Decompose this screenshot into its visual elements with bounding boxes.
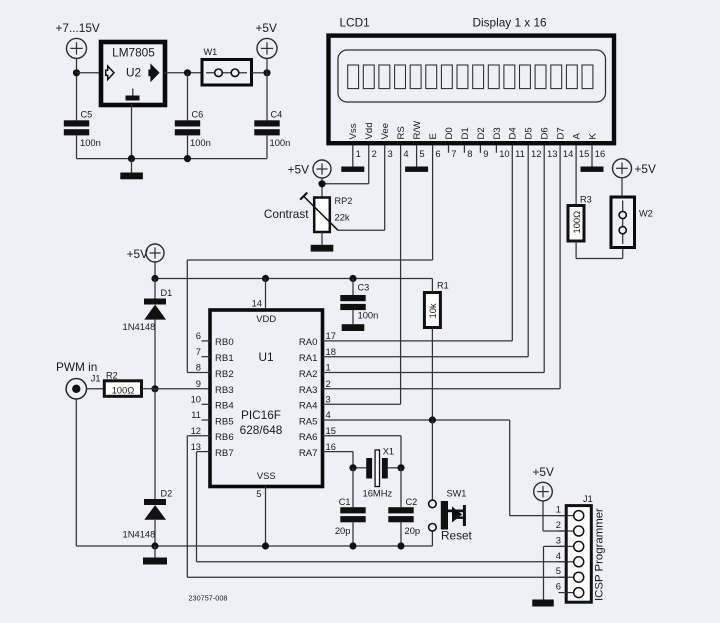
wire [323, 403, 401, 405]
node X1 left [349, 464, 356, 471]
svg-text:R2: R2 [106, 371, 118, 381]
wire [542, 501, 544, 531]
capacitor C2 [388, 497, 420, 536]
wire [338, 229, 385, 231]
resistor R1 10k [424, 281, 448, 328]
wire [400, 146, 402, 405]
svg-text:VSS: VSS [257, 470, 276, 481]
wire [187, 73, 189, 121]
svg-text:3: 3 [388, 148, 393, 159]
wire [559, 530, 567, 532]
wire [495, 146, 497, 153]
svg-text:100n: 100n [80, 137, 101, 148]
svg-text:D7: D7 [556, 127, 567, 139]
power +5V symbol (rail) [127, 244, 164, 262]
wire [202, 340, 211, 342]
power +5V symbol (ICSP) [533, 465, 554, 501]
ground [120, 173, 143, 180]
crystal X1 16MHz [363, 447, 395, 499]
svg-text:100Ω: 100Ω [571, 211, 582, 234]
svg-text:RA1: RA1 [299, 353, 318, 364]
svg-text:RA0: RA0 [299, 337, 318, 348]
wire [448, 146, 450, 153]
svg-text:16MHz: 16MHz [363, 487, 393, 498]
svg-text:D5: D5 [524, 127, 535, 139]
svg-text:+5V: +5V [288, 163, 309, 177]
wire [187, 259, 432, 261]
wire [509, 420, 511, 516]
node +5V junction [263, 69, 270, 76]
wire [352, 522, 354, 546]
wire [621, 178, 623, 197]
svg-text:9: 9 [196, 378, 201, 389]
svg-text:W2: W2 [639, 209, 653, 219]
wire [187, 135, 189, 159]
svg-text:+5V: +5V [127, 247, 148, 261]
wire [323, 435, 402, 437]
svg-text:J1: J1 [583, 494, 593, 504]
svg-text:4: 4 [326, 409, 331, 420]
svg-text:3: 3 [556, 534, 561, 545]
svg-text:13: 13 [547, 148, 557, 159]
wire [197, 451, 211, 453]
ground [342, 324, 365, 331]
wire [77, 158, 268, 160]
svg-text:Display 1 x 16: Display 1 x 16 [473, 16, 548, 30]
wire [321, 178, 323, 198]
wire [400, 436, 402, 468]
capacitor C3 [340, 283, 378, 321]
svg-text:1N4148: 1N4148 [123, 529, 156, 540]
svg-text:+5V: +5V [635, 162, 656, 176]
svg-text:628/648: 628/648 [240, 423, 283, 437]
wire [252, 72, 268, 74]
wire [323, 388, 561, 390]
ground [311, 245, 334, 252]
svg-text:D1: D1 [161, 288, 173, 298]
node rail/D1 [151, 275, 158, 282]
U1 pin numbers [191, 298, 336, 500]
svg-text:W1: W1 [204, 47, 218, 57]
svg-text:+7...15V: +7...15V [56, 21, 100, 35]
svg-text:LCD1: LCD1 [340, 16, 370, 30]
svg-text:E: E [428, 133, 439, 139]
svg-text:C5: C5 [81, 110, 93, 120]
svg-text:C4: C4 [271, 110, 283, 120]
wire [591, 146, 593, 167]
wire [76, 545, 432, 547]
svg-text:100Ω: 100Ω [112, 384, 135, 395]
svg-text:9: 9 [483, 148, 488, 159]
wire [76, 135, 78, 159]
svg-text:230757-008: 230757-008 [189, 593, 228, 602]
wire [431, 328, 433, 421]
svg-text:13: 13 [191, 441, 201, 452]
wire [131, 159, 133, 173]
svg-text:RB1: RB1 [215, 353, 234, 364]
LCD pin numbers 1-16 [356, 148, 606, 159]
wire [87, 388, 105, 390]
svg-text:RA6: RA6 [299, 432, 318, 443]
wire [187, 435, 210, 437]
svg-text:3: 3 [326, 394, 331, 405]
node rail/VDD [262, 275, 269, 282]
wire [368, 146, 370, 184]
wire [543, 546, 545, 599]
power +5V symbol (top) [256, 21, 278, 58]
wire [131, 104, 133, 159]
svg-text:+5V: +5V [256, 21, 277, 35]
power +5V symbol (contrast) [288, 160, 331, 178]
svg-text:RA5: RA5 [299, 416, 318, 427]
resistor R3 100Ω [568, 195, 592, 242]
power +7...15V input symbol [56, 21, 100, 58]
svg-text:4: 4 [556, 550, 561, 561]
svg-text:10: 10 [499, 148, 509, 159]
svg-text:5: 5 [256, 488, 261, 499]
wire [559, 545, 567, 547]
svg-text:RB4: RB4 [215, 401, 234, 412]
J1 pin numbers 1-6 [556, 504, 561, 592]
wire [154, 262, 156, 279]
node input junction [73, 69, 80, 76]
pushbutton SW1 Reset [429, 489, 473, 543]
power +5V symbol (backlight) [613, 159, 656, 178]
potentiometer RP2 22k Contrast [264, 193, 352, 232]
wire [323, 356, 529, 358]
wire [352, 468, 354, 507]
svg-text:RA7: RA7 [299, 448, 318, 459]
svg-text:10k: 10k [427, 303, 438, 318]
jumper W1 [202, 47, 252, 85]
svg-text:8: 8 [467, 148, 472, 159]
node C2/gnd [397, 542, 404, 549]
svg-text:1: 1 [556, 504, 561, 515]
wire [187, 576, 566, 578]
svg-text:K: K [587, 133, 598, 140]
svg-text:12: 12 [191, 425, 201, 436]
wire [400, 468, 402, 507]
wire [559, 592, 567, 594]
svg-text:12: 12 [531, 148, 541, 159]
svg-text:C6: C6 [192, 110, 204, 120]
svg-text:D2: D2 [476, 127, 487, 139]
svg-text:RP2: RP2 [335, 196, 353, 206]
wire [75, 399, 77, 546]
wire [202, 419, 211, 421]
wire [154, 279, 156, 299]
wire [431, 279, 433, 293]
svg-text:U2: U2 [126, 66, 141, 80]
node rail/C3 [349, 275, 356, 282]
wire [352, 309, 354, 324]
wire [323, 372, 545, 374]
svg-text:D1: D1 [460, 127, 471, 139]
resistor R2 100Ω [104, 371, 141, 397]
wire [154, 389, 156, 499]
wire [323, 340, 513, 342]
wire [154, 546, 156, 558]
capacitor C4 [254, 110, 290, 149]
svg-text:11: 11 [191, 409, 201, 420]
wire [142, 388, 211, 390]
svg-text:C1: C1 [339, 497, 351, 507]
svg-text:Vee: Vee [380, 123, 391, 140]
wire [321, 232, 323, 245]
wire [154, 520, 156, 546]
wire [77, 72, 100, 74]
svg-text:Vdd: Vdd [364, 122, 375, 139]
svg-text:5: 5 [419, 148, 424, 159]
svg-text:RB2: RB2 [215, 369, 234, 380]
svg-text:R/W: R/W [412, 120, 423, 140]
svg-text:17: 17 [326, 330, 336, 341]
svg-text:10: 10 [191, 394, 201, 405]
wire [575, 241, 577, 259]
wire [400, 522, 402, 546]
wire [202, 356, 211, 358]
svg-text:6: 6 [435, 148, 440, 159]
svg-text:RB7: RB7 [215, 448, 234, 459]
svg-text:D6: D6 [540, 127, 551, 139]
node gnd junction [128, 155, 135, 162]
wire [575, 146, 577, 206]
capacitor C1 [335, 497, 366, 536]
svg-text:20p: 20p [405, 525, 421, 536]
node Vdd junction [318, 180, 325, 187]
svg-text:100n: 100n [270, 137, 291, 148]
wire [352, 279, 354, 296]
svg-text:5: 5 [556, 565, 561, 576]
wire [353, 467, 366, 469]
wire [511, 146, 513, 341]
svg-text:7: 7 [451, 148, 456, 159]
wire [431, 531, 433, 546]
capacitor C5 [64, 110, 101, 149]
node R2/RB3 junction [151, 385, 158, 392]
svg-text:D0: D0 [444, 127, 455, 139]
node VSS/gnd rail [262, 542, 269, 549]
wire [323, 451, 354, 453]
svg-text:RB0: RB0 [215, 337, 234, 348]
ground [341, 167, 364, 172]
wire [164, 72, 202, 74]
wire [544, 545, 567, 547]
node C1/gnd [349, 542, 356, 549]
svg-text:15: 15 [326, 425, 336, 436]
LCD module LCD1 Display 1 x 16 [329, 16, 615, 144]
node gnd junction [184, 155, 191, 162]
wire [576, 258, 623, 260]
wire [559, 561, 567, 563]
capacitor C6 [175, 110, 211, 149]
svg-text:PIC16F: PIC16F [241, 408, 281, 422]
svg-text:RA2: RA2 [299, 369, 318, 380]
svg-text:14: 14 [252, 298, 262, 309]
svg-text:D3: D3 [492, 127, 503, 139]
svg-text:X1: X1 [383, 447, 394, 457]
wire [154, 320, 156, 389]
svg-text:D2: D2 [161, 489, 173, 499]
wire [266, 135, 268, 159]
svg-text:7: 7 [196, 346, 201, 357]
wire [559, 146, 561, 389]
svg-text:C3: C3 [358, 283, 370, 293]
svg-text:RA3: RA3 [299, 385, 318, 396]
wire [559, 576, 567, 578]
wire [323, 419, 510, 421]
wire [431, 420, 433, 500]
diode D2 1N4148 [123, 489, 173, 540]
wire [479, 146, 481, 153]
svg-text:+5V: +5V [533, 465, 554, 479]
connector J1 ICSP Programmer [566, 494, 605, 602]
svg-text:C2: C2 [406, 497, 418, 507]
svg-text:1N4148: 1N4148 [123, 321, 156, 332]
wire [265, 279, 267, 310]
svg-text:R1: R1 [437, 281, 449, 291]
wire [196, 452, 198, 562]
wire [432, 146, 434, 261]
connector J1 PWM in [56, 360, 101, 399]
wire [543, 530, 566, 532]
wire [266, 58, 268, 120]
svg-text:SW1: SW1 [447, 489, 467, 499]
wire [543, 146, 545, 373]
svg-text:Reset: Reset [441, 529, 473, 543]
wire [559, 515, 567, 517]
wire [197, 561, 567, 563]
svg-text:6: 6 [556, 581, 561, 592]
ground [143, 558, 167, 565]
regulator U2 LM7805 [101, 42, 165, 105]
svg-text:2: 2 [556, 519, 561, 530]
svg-text:RS: RS [396, 126, 407, 139]
wire [463, 146, 465, 153]
svg-text:R3: R3 [580, 195, 592, 205]
svg-text:D4: D4 [508, 127, 519, 140]
svg-text:6: 6 [196, 330, 201, 341]
svg-text:Vss: Vss [348, 123, 359, 139]
svg-text:8: 8 [196, 362, 201, 373]
svg-text:22k: 22k [335, 212, 350, 223]
wire [622, 248, 624, 259]
node D2/gnd rail [151, 542, 158, 549]
wire [388, 467, 401, 469]
svg-text:1: 1 [356, 148, 361, 159]
svg-text:LM7805: LM7805 [112, 46, 155, 60]
svg-text:20p: 20p [335, 525, 351, 536]
svg-text:RB6: RB6 [215, 432, 234, 443]
svg-text:100n: 100n [190, 137, 211, 148]
svg-text:1: 1 [326, 362, 331, 373]
svg-text:4: 4 [403, 148, 408, 159]
ground [581, 167, 604, 172]
svg-text:J1: J1 [91, 374, 101, 384]
wire [384, 146, 386, 231]
jumper W2 [611, 197, 653, 248]
svg-text:A: A [572, 133, 583, 140]
svg-text:14: 14 [563, 148, 573, 159]
ground [532, 600, 554, 607]
svg-text:ICSP Programmer: ICSP Programmer [594, 508, 606, 601]
wire [186, 436, 188, 577]
svg-text:RA4: RA4 [299, 401, 318, 412]
node C6 junction [184, 69, 191, 76]
svg-text:RB3: RB3 [215, 385, 234, 396]
wire [155, 278, 432, 280]
svg-text:Contrast: Contrast [264, 207, 309, 221]
node R1/RA5/SW1 junction [429, 416, 436, 423]
wire [265, 486, 267, 546]
svg-text:16: 16 [326, 441, 336, 452]
microcontroller U1 PIC16F628/648 [210, 310, 323, 487]
wire [527, 146, 529, 357]
wire [352, 146, 354, 167]
svg-text:18: 18 [326, 346, 336, 357]
svg-text:U1: U1 [258, 350, 273, 364]
svg-text:11: 11 [515, 148, 525, 159]
wire [322, 183, 369, 185]
wire [202, 403, 211, 405]
node X1 right [397, 464, 404, 471]
wire [416, 146, 418, 167]
svg-text:100n: 100n [358, 310, 379, 321]
ground [405, 167, 428, 172]
wire [352, 452, 354, 468]
diode D1 1N4148 [123, 288, 173, 332]
svg-text:2: 2 [372, 148, 377, 159]
wire [510, 515, 567, 517]
wire [187, 372, 210, 374]
svg-text:RB5: RB5 [215, 416, 234, 427]
wire [186, 260, 188, 373]
svg-text:2: 2 [326, 378, 331, 389]
svg-text:PWM in: PWM in [56, 360, 97, 374]
wire [76, 58, 78, 120]
svg-text:16: 16 [595, 148, 605, 159]
svg-text:15: 15 [579, 148, 589, 159]
svg-text:VDD: VDD [256, 313, 276, 324]
